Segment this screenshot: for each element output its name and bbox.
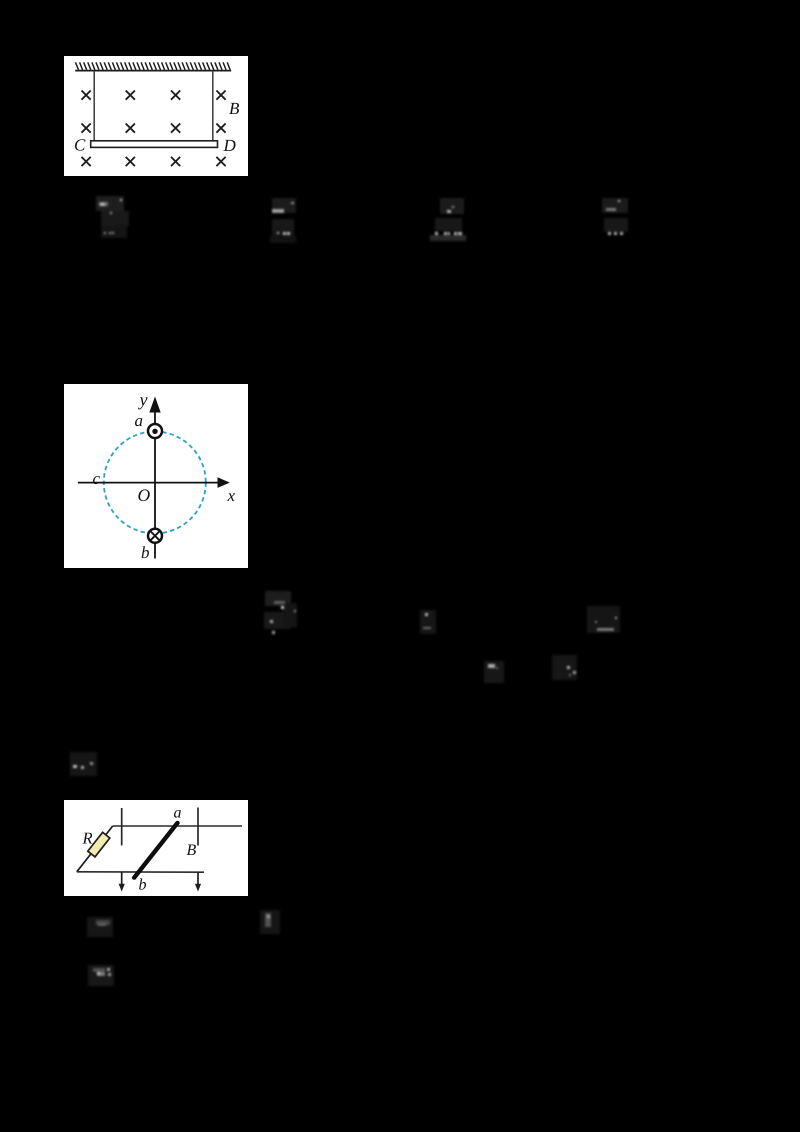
point a: field out of page	[148, 424, 162, 438]
svg-text:D: D	[222, 136, 236, 155]
field cross r2c2	[126, 124, 135, 133]
faint formula part 1 formula	[258, 908, 282, 936]
field cross r1c4	[216, 91, 225, 100]
figure 2: circle on xy axes with points a,b,c	[64, 384, 248, 568]
svg-text:b: b	[141, 543, 150, 562]
faint formula option D	[598, 194, 638, 244]
field cross r1c1	[82, 91, 91, 100]
field cross r3c1	[82, 157, 91, 166]
faint formula q3 formula	[68, 750, 100, 778]
faint formula option B	[266, 194, 302, 246]
dashed circle path	[104, 432, 206, 534]
bottom rail	[77, 871, 204, 873]
svg-text:c: c	[92, 469, 100, 488]
y axis	[154, 409, 156, 559]
svg-text:a: a	[134, 411, 143, 430]
ceiling line	[75, 70, 231, 72]
x axis	[78, 482, 220, 484]
field cross r2c4	[216, 124, 225, 133]
svg-text:b: b	[138, 877, 146, 894]
field cross r3c4	[216, 157, 225, 166]
svg-text:R: R	[81, 828, 92, 847]
point b: field into page	[148, 529, 162, 543]
top rail	[113, 825, 242, 827]
field cross r1c3	[171, 91, 180, 100]
field boundary tick right	[197, 808, 199, 846]
faint formula q2 formula 2	[418, 606, 440, 636]
rod ab	[134, 823, 177, 878]
arrow left	[121, 872, 123, 886]
svg-text:y: y	[137, 389, 147, 409]
field cross r3c3	[171, 157, 180, 166]
faint formula part (2)	[86, 962, 116, 988]
faint formula q2 formula 5	[550, 652, 580, 682]
field cross r2c1	[82, 124, 91, 133]
faint formula q2 formula 1	[262, 588, 300, 636]
faint formula part (1)	[86, 915, 116, 939]
field boundary tick left	[121, 808, 123, 846]
svg-text:O: O	[137, 485, 150, 505]
faint formula q2 formula 4	[482, 658, 508, 686]
resistor R body	[88, 832, 110, 857]
svg-text:B: B	[229, 99, 240, 118]
arrow right	[197, 872, 199, 885]
ceiling hatching	[76, 62, 231, 70]
left connecting wire	[77, 826, 113, 872]
faint formula q2 formula 3	[584, 602, 624, 636]
faint formula option C	[428, 194, 468, 246]
left wire	[93, 71, 95, 142]
bar CD	[91, 141, 218, 148]
figure 1: bar CD hanging from ceiling in field B	[64, 56, 248, 176]
svg-text:a: a	[173, 805, 181, 822]
faint formula option A	[95, 194, 135, 244]
svg-text:x: x	[226, 486, 235, 505]
field cross r2c3	[171, 124, 180, 133]
svg-text:C: C	[74, 136, 86, 155]
svg-text:B: B	[186, 842, 196, 859]
figure 3: rod ab on rails with resistor R	[64, 800, 248, 896]
right wire	[212, 71, 214, 142]
field cross r1c2	[126, 91, 135, 100]
field cross r3c2	[126, 157, 135, 166]
